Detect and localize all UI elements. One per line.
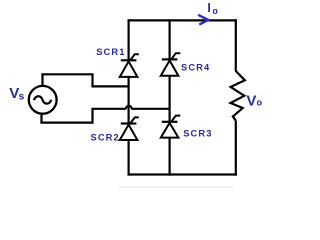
wire: bottom DC rail bbox=[128, 173, 237, 175]
resistor R load bbox=[231, 71, 245, 121]
wire: source top lead to left leg (with step) bbox=[41, 74, 128, 86]
wire: left leg upper (top rail to SCR1 cathode) bbox=[128, 19, 130, 60]
wire: source bottom terminal stub bbox=[40, 113, 42, 123]
label SCR3 bbox=[183, 129, 211, 139]
thyristor SCR3 bbox=[161, 116, 181, 138]
wire: source bottom lead to middle leg (with step and hop over left leg) bbox=[40, 106, 169, 123]
wire: middle leg lower (SCR3 anode to bottom rail) bbox=[169, 138, 171, 176]
wire: top DC rail bbox=[128, 19, 237, 21]
AC source Vs bbox=[29, 86, 57, 114]
svg-text:SCR1: SCR1 bbox=[96, 47, 124, 57]
wire: middle leg middle (SCR4 anode to SCR3 cathode) bbox=[169, 76, 171, 122]
svg-text:SCR4: SCR4 bbox=[181, 63, 210, 73]
thyristor SCR1 bbox=[120, 54, 139, 77]
label Vo bbox=[246, 93, 262, 110]
label Vs bbox=[9, 85, 24, 103]
svg-text:Io: Io bbox=[207, 1, 218, 16]
wire: load branch upper (top rail to resistor) bbox=[235, 19, 237, 71]
svg-text:SCR2: SCR2 bbox=[91, 133, 119, 143]
wire: load branch lower (resistor to bottom rail) bbox=[235, 121, 237, 176]
svg-text:SCR3: SCR3 bbox=[183, 129, 211, 139]
svg-text:Vo: Vo bbox=[246, 93, 262, 110]
node: AC line A junction on left leg bbox=[128, 85, 130, 87]
wire: middle leg upper (top rail to SCR4 cathode) bbox=[169, 19, 171, 59]
label SCR2 bbox=[91, 133, 119, 143]
current arrow Io bbox=[198, 15, 208, 25]
faint cut-off caption remnant at bottom edge bbox=[118, 186, 234, 188]
wire: left leg middle (SCR1 anode to SCR2 cathode) bbox=[128, 77, 130, 124]
label SCR1 bbox=[96, 47, 124, 57]
thyristor SCR2 bbox=[120, 117, 139, 140]
svg-text:Vs: Vs bbox=[9, 85, 24, 103]
node: AC line B junction on middle leg bbox=[169, 108, 171, 110]
label Io bbox=[207, 1, 218, 16]
wire: left leg lower (SCR2 anode to bottom rail) bbox=[128, 140, 130, 176]
label SCR4 bbox=[181, 63, 210, 73]
thyristor SCR4 bbox=[161, 53, 181, 75]
wire: source top terminal stub bbox=[41, 74, 43, 87]
